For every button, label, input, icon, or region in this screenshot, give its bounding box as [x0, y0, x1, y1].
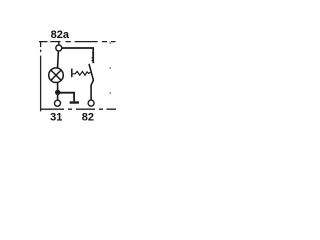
wire: terminal 82a to switch fixed contact — [62, 48, 93, 53]
ground (chassis) bar — [70, 101, 79, 103]
switch blade — [89, 64, 93, 85]
terminal 31 — [55, 100, 61, 106]
terminal 82a (stub to outline) — [58, 42, 60, 46]
switch fixed contact tick 2 — [92, 60, 94, 62]
wire: switch blade to terminal 82 — [90, 85, 92, 100]
switch actuator zigzag linkage — [72, 71, 90, 75]
switch fixed contact — [92, 52, 94, 63]
switch actuator bar — [71, 69, 73, 78]
svg-text:31: 31 — [50, 112, 62, 124]
terminal 82 — [88, 100, 94, 106]
svg-text:82: 82 — [82, 112, 94, 124]
switch fixed contact tick 1 — [92, 57, 94, 59]
wire: lamp to junction — [57, 83, 59, 93]
svg-text:82a: 82a — [51, 29, 70, 41]
lamp E1 — [49, 68, 64, 83]
wire: junction to ground — [59, 93, 74, 102]
component outline (dash-dot box) — [39, 42, 116, 112]
terminal 82a — [56, 45, 62, 51]
junction node — [55, 90, 60, 95]
wire: terminal 82a to lamp — [57, 51, 60, 68]
wire: junction to terminal 31 — [57, 93, 59, 101]
